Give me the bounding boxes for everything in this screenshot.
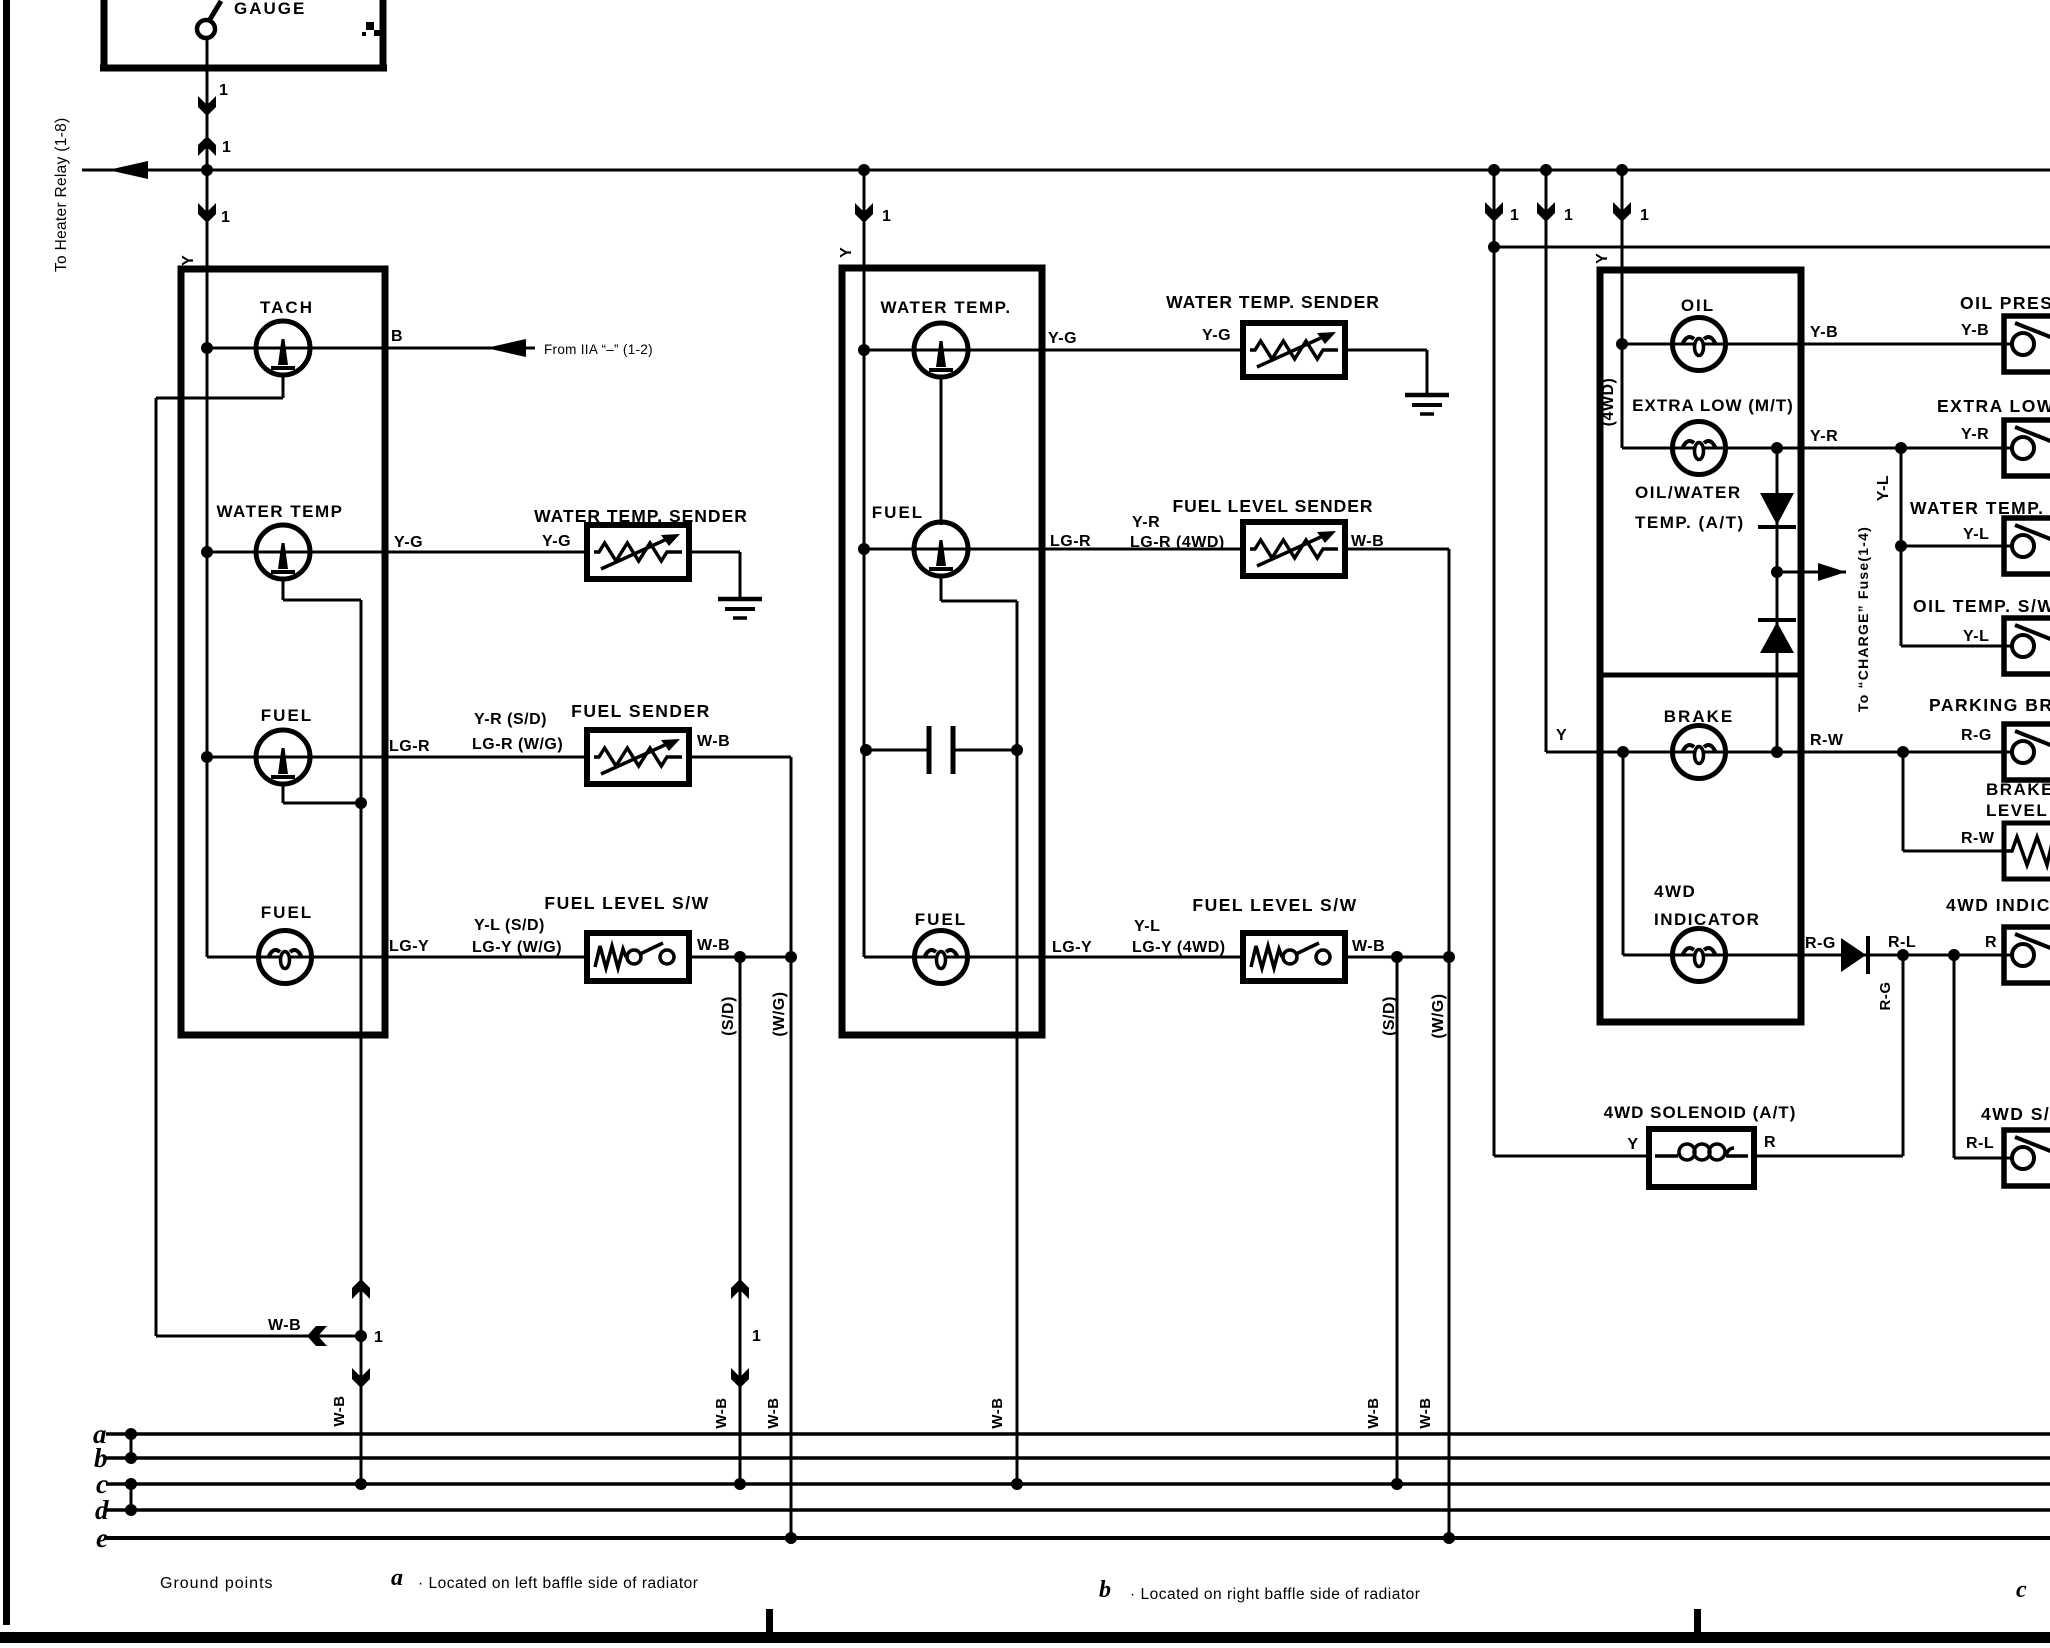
svg-text:Y-L: Y-L <box>1963 526 1989 543</box>
svg-text:LG-Y: LG-Y <box>1052 939 1092 956</box>
svg-text:EXTRA LOW S/W: EXTRA LOW S/W <box>1937 396 2050 416</box>
svg-text:R-W: R-W <box>1810 732 1844 749</box>
svg-text:From IIA “–” (1-2): From IIA “–” (1-2) <box>544 342 653 357</box>
svg-text:W-B: W-B <box>331 1395 348 1426</box>
svg-text:(W/G): (W/G) <box>1430 993 1447 1038</box>
svg-text:FUEL LEVEL S/W: FUEL LEVEL S/W <box>1192 895 1357 915</box>
svg-text:Y-B: Y-B <box>1961 322 1989 339</box>
svg-text:LG-Y (W/G): LG-Y (W/G) <box>472 939 562 956</box>
svg-text:1: 1 <box>374 1329 383 1346</box>
svg-text:4WD SOLENOID (A/T): 4WD SOLENOID (A/T) <box>1604 1103 1797 1122</box>
svg-text:1: 1 <box>882 208 891 225</box>
svg-text:1: 1 <box>221 209 230 226</box>
svg-text:b: b <box>1099 1577 1111 1603</box>
svg-text:Y-L (S/D): Y-L (S/D) <box>474 917 545 934</box>
svg-text:LG-Y (4WD): LG-Y (4WD) <box>1132 939 1226 956</box>
svg-text:a: a <box>391 1565 403 1591</box>
svg-text:1: 1 <box>752 1328 761 1345</box>
svg-text:· Located on right baffle side: · Located on right baffle side of radiat… <box>1130 1586 1420 1603</box>
svg-text:4WD S/W: 4WD S/W <box>1981 1104 2050 1124</box>
svg-text:LG-R (4WD): LG-R (4WD) <box>1130 534 1225 551</box>
svg-text:Y: Y <box>180 254 197 266</box>
svg-text:BRAKE: BRAKE <box>1986 780 2050 799</box>
svg-text:1: 1 <box>1510 207 1519 224</box>
svg-text:Y-G: Y-G <box>394 534 423 551</box>
svg-text:Y-L: Y-L <box>1134 918 1160 935</box>
svg-text:TACH: TACH <box>260 298 314 317</box>
svg-text:1: 1 <box>1640 207 1649 224</box>
svg-text:OIL PRESS. S/W: OIL PRESS. S/W <box>1960 293 2050 313</box>
svg-text:LG-R (W/G): LG-R (W/G) <box>472 736 563 753</box>
svg-text:4WD INDICATOR S/W: 4WD INDICATOR S/W <box>1946 895 2050 915</box>
svg-text:GAUGE: GAUGE <box>234 0 306 18</box>
svg-text:W-B: W-B <box>1417 1397 1434 1428</box>
svg-text:LG-R: LG-R <box>1050 533 1091 550</box>
svg-text:FUEL: FUEL <box>915 910 967 929</box>
svg-text:To Heater Relay (1-8): To Heater Relay (1-8) <box>53 118 70 272</box>
svg-text:TEMP. (A/T): TEMP. (A/T) <box>1635 513 1745 532</box>
svg-text:PARKING BRAKE S/W: PARKING BRAKE S/W <box>1929 695 2050 715</box>
svg-text:BRAKE: BRAKE <box>1664 707 1734 726</box>
svg-text:LG-R: LG-R <box>389 738 430 755</box>
svg-text:WATER TEMP. S/W: WATER TEMP. S/W <box>1910 498 2050 518</box>
svg-text:Y: Y <box>1627 1136 1638 1153</box>
svg-text:B: B <box>391 328 403 345</box>
svg-text:WATER TEMP. SENDER: WATER TEMP. SENDER <box>1166 292 1380 312</box>
svg-text:W-B: W-B <box>713 1397 730 1428</box>
svg-text:R-G: R-G <box>1805 935 1836 952</box>
svg-text:Y: Y <box>838 246 855 258</box>
svg-text:Ground points: Ground points <box>160 1575 274 1592</box>
svg-text:W-B: W-B <box>697 937 730 954</box>
svg-text:(4WD): (4WD) <box>1600 378 1617 427</box>
svg-text:W-B: W-B <box>765 1397 782 1428</box>
svg-text:4WD: 4WD <box>1654 882 1696 901</box>
svg-text:W-B: W-B <box>1352 938 1385 955</box>
svg-text:OIL TEMP. S/W: OIL TEMP. S/W <box>1913 596 2050 616</box>
svg-text:W-B: W-B <box>1351 533 1384 550</box>
svg-text:1: 1 <box>219 82 228 99</box>
svg-text:1: 1 <box>222 139 231 156</box>
svg-text:W-B: W-B <box>268 1317 301 1334</box>
svg-text:OIL: OIL <box>1681 296 1715 315</box>
svg-text:OIL/WATER: OIL/WATER <box>1635 483 1742 502</box>
svg-text:(S/D): (S/D) <box>720 996 737 1036</box>
svg-text:EXTRA LOW (M/T): EXTRA LOW (M/T) <box>1632 396 1794 415</box>
svg-text:LEVEL: LEVEL <box>1986 801 2048 820</box>
svg-text:Y-L: Y-L <box>1875 475 1892 501</box>
svg-text:To “CHARGE” Fuse(1-4): To “CHARGE” Fuse(1-4) <box>1855 526 1871 712</box>
svg-text:WATER TEMP: WATER TEMP <box>216 502 343 521</box>
svg-text:R-G: R-G <box>1877 982 1894 1011</box>
svg-text:Y-R (S/D): Y-R (S/D) <box>474 711 547 728</box>
svg-text:(W/G): (W/G) <box>771 991 788 1036</box>
svg-text:INDICATOR: INDICATOR <box>1654 910 1760 929</box>
svg-text:Y: Y <box>1594 252 1611 264</box>
svg-text:R-L: R-L <box>1966 1135 1994 1152</box>
svg-text:Y-R: Y-R <box>1961 426 1989 443</box>
svg-text:W-B: W-B <box>1365 1397 1382 1428</box>
svg-text:R-G: R-G <box>1961 727 1992 744</box>
svg-text:FUEL SENDER: FUEL SENDER <box>571 701 711 721</box>
svg-text:d: d <box>95 1495 109 1525</box>
svg-text:FUEL: FUEL <box>261 706 313 725</box>
svg-text:FUEL LEVEL SENDER: FUEL LEVEL SENDER <box>1172 496 1373 516</box>
svg-text:Y-G: Y-G <box>1202 327 1231 344</box>
svg-text:Y-R: Y-R <box>1132 514 1160 531</box>
svg-text:WATER TEMP.: WATER TEMP. <box>880 298 1011 317</box>
svg-text:LG-Y: LG-Y <box>389 938 429 955</box>
svg-text:W-B: W-B <box>989 1397 1006 1428</box>
svg-text:Y-B: Y-B <box>1810 324 1838 341</box>
svg-text:· Located on left baffle side: · Located on left baffle side of radiato… <box>418 1575 698 1592</box>
svg-text:R-W: R-W <box>1961 830 1995 847</box>
svg-text:Y-G: Y-G <box>1048 330 1077 347</box>
svg-text:Y: Y <box>1556 727 1567 744</box>
svg-text:1: 1 <box>1564 207 1573 224</box>
svg-text:(S/D): (S/D) <box>1381 996 1398 1036</box>
svg-text:Y-R: Y-R <box>1810 428 1838 445</box>
svg-text:Y-L: Y-L <box>1963 628 1989 645</box>
svg-text:R: R <box>1985 934 1997 951</box>
svg-text:R-L: R-L <box>1888 934 1916 951</box>
svg-text:FUEL: FUEL <box>872 503 924 522</box>
svg-text:Y-G: Y-G <box>542 533 571 550</box>
svg-text:c: c <box>2016 1577 2027 1603</box>
svg-text:R: R <box>1764 1134 1776 1151</box>
svg-text:W-B: W-B <box>697 733 730 750</box>
svg-text:e: e <box>96 1523 108 1553</box>
svg-text:FUEL: FUEL <box>261 903 313 922</box>
svg-text:FUEL LEVEL S/W: FUEL LEVEL S/W <box>544 893 709 913</box>
